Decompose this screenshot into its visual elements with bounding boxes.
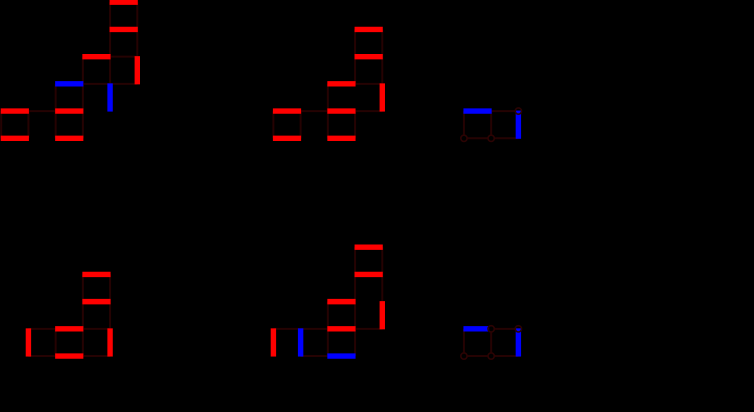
c1 highlight bond n9-n16b — [107, 83, 112, 111]
c1 highlight bond n13-n14 — [1, 108, 29, 113]
c5 highlight bond q8a-q8b — [82, 299, 110, 304]
c5 bond q5-q6 — [82, 274, 84, 301]
c5 highlight bond q1b-q2c — [26, 328, 31, 356]
c1 highlight bond n8-n10 — [135, 56, 140, 84]
c2 highlight bond m6-m7 — [380, 83, 385, 111]
c5 bond q7-q8 — [83, 328, 110, 330]
c1 bond n16-n21 — [82, 111, 84, 138]
c2 bond m4-m5 — [354, 57, 356, 84]
c6 bond r3-r6 — [381, 274, 383, 301]
c5 highlight bond q6a-q6b — [82, 272, 110, 277]
c6 bond r11-r12 — [301, 328, 328, 330]
c2 highlight bond m16-m15 — [273, 136, 301, 141]
c4 bond p1-p2 — [491, 110, 515, 112]
c1 bond n9-n10 — [110, 83, 137, 85]
c1 bond n15-n20 — [55, 111, 57, 138]
c6 bond r5-r8 — [354, 302, 356, 329]
c6 bond r7-r11 — [327, 302, 329, 329]
c4 atom ring a3 — [515, 108, 521, 114]
c2 bond m8-m18 — [354, 111, 356, 138]
c6 highlight bond r6-r9 — [380, 301, 385, 329]
c2 bond m12-m15 — [300, 111, 302, 138]
c1 bond n3-n8 — [136, 29, 138, 56]
c1 bond n7-n8 — [110, 56, 137, 58]
c5 bond q1-q2 — [28, 355, 55, 357]
c9 bond s2-s4 — [490, 332, 492, 353]
c5 highlight bond q2b-q9c — [55, 353, 83, 358]
c2 bond m3-m6 — [381, 57, 383, 84]
c1 highlight bond n12-n11b — [55, 81, 83, 86]
c2 highlight bond m9-m5 — [327, 81, 355, 86]
c9 highlight bond s5-s6b — [463, 326, 489, 331]
c1 bond n13-n18 — [0, 111, 2, 138]
c6 bond r15-r16 — [301, 355, 328, 357]
c4 atom ring a1 — [461, 135, 467, 141]
c5 bond q8-q9 — [82, 302, 84, 329]
c5 bond q6-q7 — [109, 274, 111, 301]
c2 highlight bond m17-m18 — [327, 136, 355, 141]
c1 bond n6-n11 — [82, 57, 84, 84]
c6 highlight bond r12-r15b — [298, 328, 303, 356]
c2 bond m5-m6 — [355, 83, 382, 85]
c1 bond n11-n16 — [82, 84, 84, 111]
c2 bond m9-m10 — [327, 84, 329, 111]
c6 bond r4-r5 — [354, 274, 356, 301]
c6 bond r8-r16 — [354, 329, 356, 356]
c2 highlight bond m10-m8 — [327, 108, 355, 113]
c5 highlight bond q10-q10b — [107, 328, 112, 356]
c1 bond n7-n9 — [109, 57, 111, 84]
c6 bond r13-r14 — [273, 328, 300, 330]
c4 bond p4-p5 — [467, 137, 488, 139]
c6 highlight bond r4b-r3b — [355, 272, 383, 277]
c9 atom ring a6 — [515, 326, 521, 332]
c5 highlight bond q3-q4b — [55, 326, 83, 331]
c6 highlight bond r13-r14b — [271, 328, 276, 356]
c6 bond r11-r15 — [327, 329, 329, 356]
c1 highlight bond n15-n16 — [55, 108, 83, 113]
c4 bond p3-p4 — [494, 137, 518, 139]
c9 bond s4-s5 — [467, 355, 488, 357]
c1 highlight bond n4-n3 — [110, 27, 138, 32]
c6 bond r1-r4 — [354, 247, 356, 274]
c1 bond n2-n3 — [136, 2, 138, 29]
c9 highlight bond s1-s3 — [516, 328, 521, 356]
c1 highlight bond n1-n2 — [110, 0, 138, 5]
c2 bond m10-m17 — [327, 111, 329, 138]
c9 bond s1-s2 — [494, 328, 515, 330]
c6 bond r8-r9 — [355, 328, 382, 330]
c2 bond m2-m3 — [381, 29, 383, 56]
c2 bond m10-m11 — [301, 110, 328, 112]
c4 highlight bond p5-p6b — [463, 108, 491, 113]
c1 bond n14-n19 — [27, 111, 29, 138]
c5 bond q4-q9b — [82, 329, 84, 356]
c9 atom ring a4 — [461, 353, 467, 359]
c5 bond q9-q10 — [83, 355, 110, 357]
c4 highlight bond p1-p3 — [516, 111, 521, 139]
c9 bond s5-s6 — [463, 329, 465, 353]
c4 bond p5-p6 — [463, 111, 465, 135]
c2 bond m1-m4 — [354, 29, 356, 56]
c4 bond p2-p4 — [490, 111, 492, 135]
c2 highlight bond m12-m13 — [273, 108, 301, 113]
c2 highlight bond m4-m3 — [355, 54, 383, 59]
c1 highlight bond n6-n7 — [82, 54, 110, 59]
c5 bond q8-q10 — [109, 302, 111, 329]
c5 bond q2-q3 — [55, 329, 57, 356]
c6 highlight bond r11b-r8b — [327, 326, 355, 331]
c6 bond r2-r3 — [381, 247, 383, 274]
c1 bond n10-n11 — [83, 83, 110, 85]
c2 bond m13-m16 — [272, 111, 274, 138]
c9 bond s3-s4 — [494, 355, 518, 357]
c4 atom ring a2 — [488, 135, 494, 141]
c2 highlight bond m1-m2 — [355, 27, 383, 32]
c5 bond q3-q4 — [28, 328, 55, 330]
c6 highlight bond r15-r16b — [327, 353, 355, 358]
c1 bond n12-n15 — [55, 84, 57, 111]
c6 highlight bond r7-r5 — [327, 299, 355, 304]
c1 bond n14-n15 — [28, 110, 55, 112]
c6 highlight bond r1-r2 — [355, 244, 383, 249]
c1 highlight bond n18-n19 — [1, 136, 29, 141]
c1 bond n4-n7 — [109, 29, 111, 56]
c1 bond n1-n4 — [109, 2, 111, 29]
c9 atom ring a5 — [488, 353, 494, 359]
c1 highlight bond n20-n21 — [55, 136, 83, 141]
c2 bond m7-m8 — [355, 110, 382, 112]
c9 atom ring a7 — [488, 326, 494, 332]
